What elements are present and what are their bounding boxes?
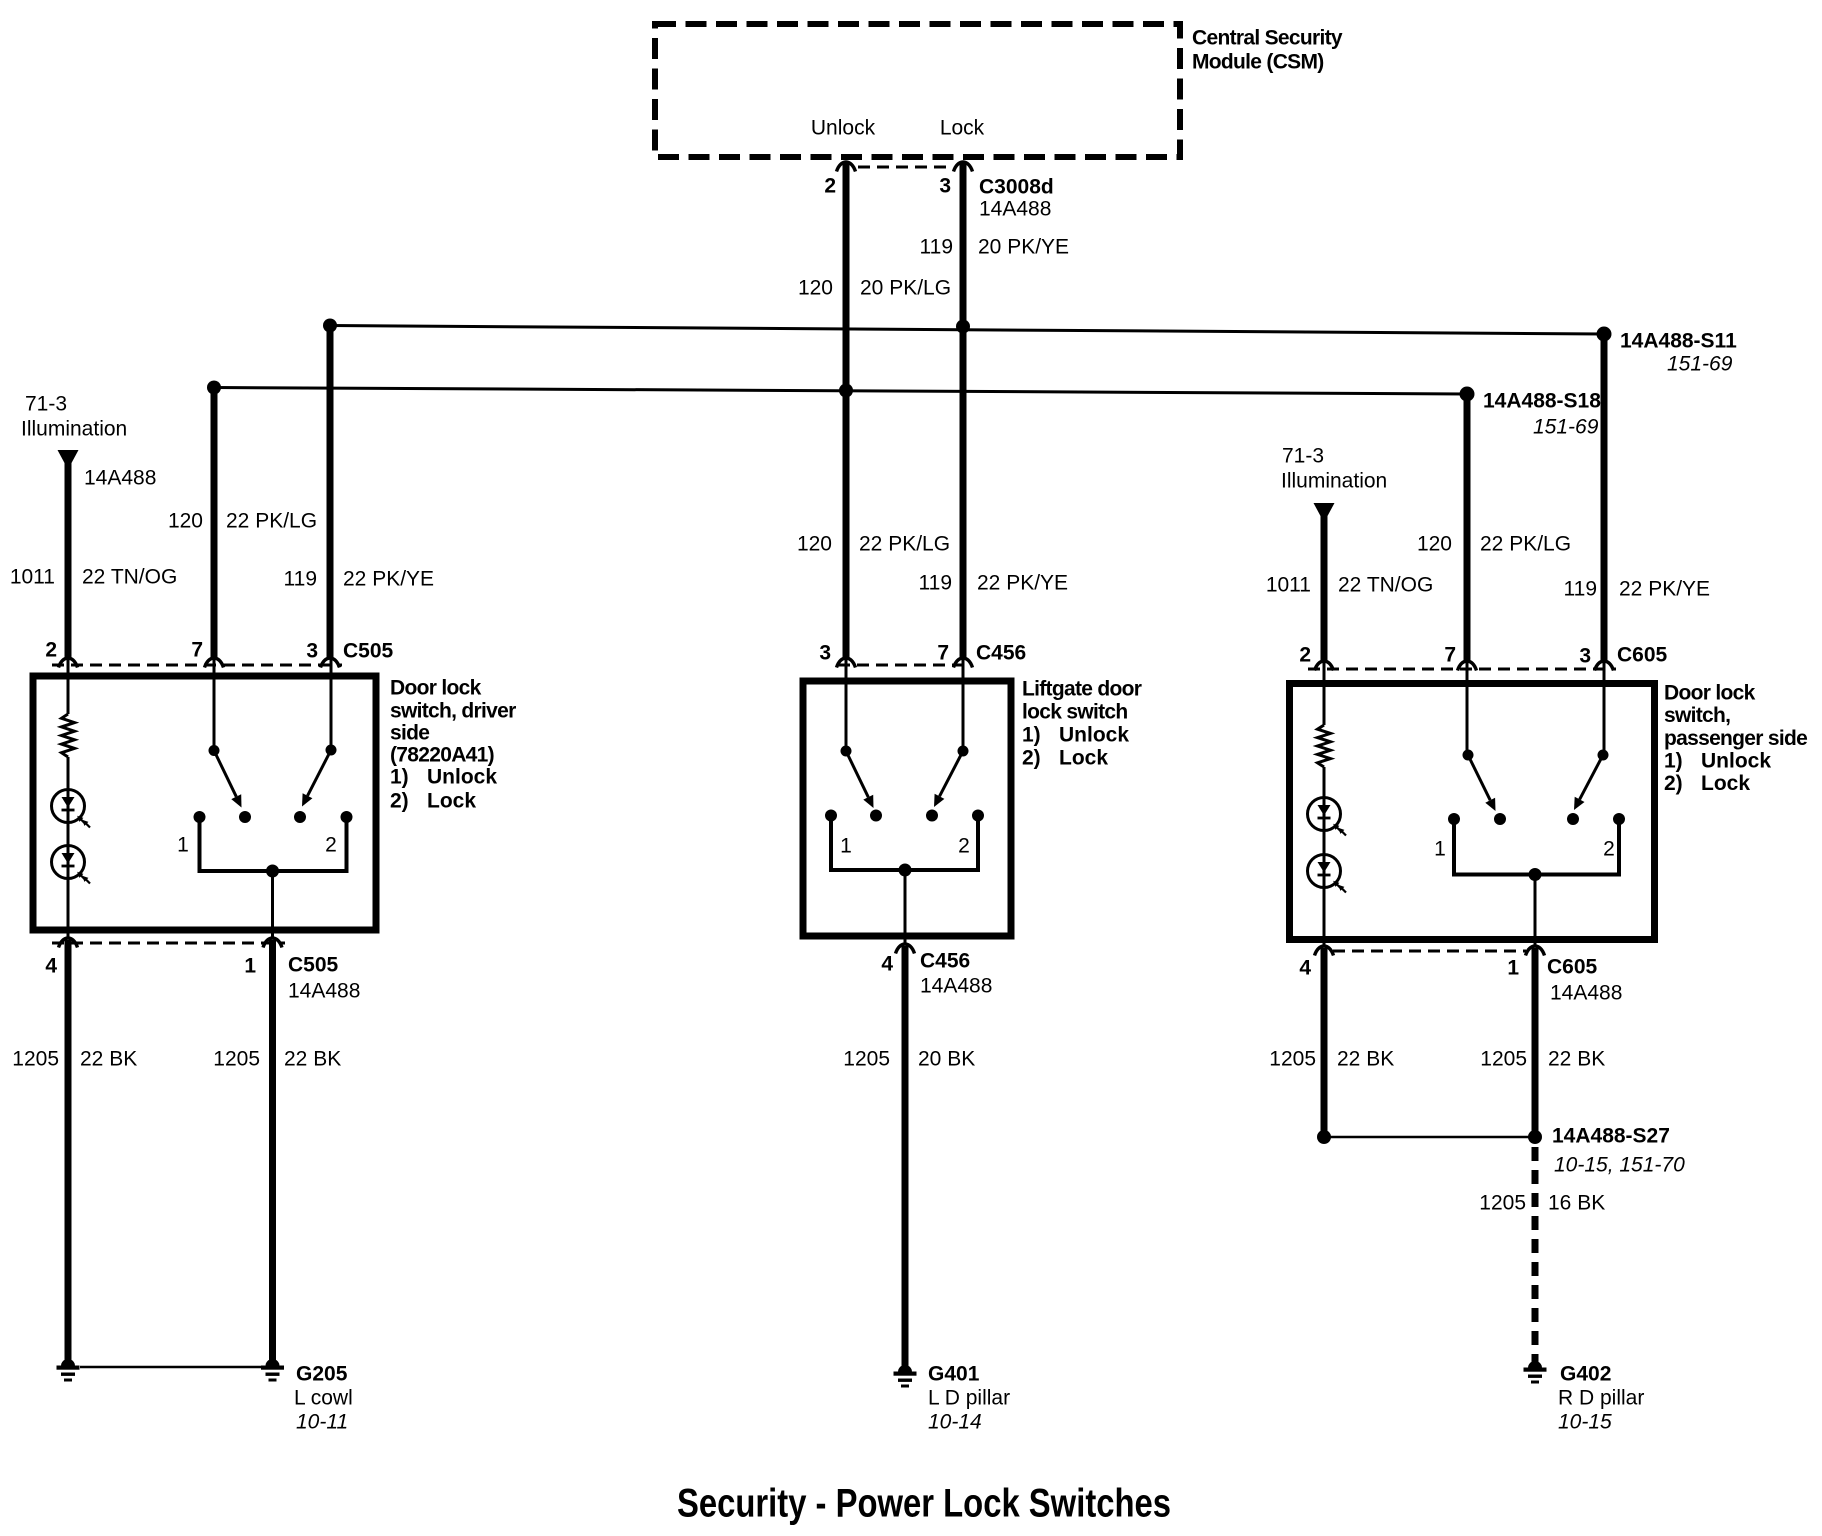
svg-text:20 PK/LG: 20 PK/LG [860, 277, 951, 300]
ground G402 symbol [1524, 1354, 1547, 1384]
svg-text:1: 1 [1434, 838, 1446, 861]
wire 1205 BK left ground leg [65, 940, 72, 1358]
driver switch description [390, 677, 516, 813]
liftgate common bus [831, 816, 978, 871]
liftgate contact lock dot [926, 810, 938, 822]
svg-text:22 BK: 22 BK [1548, 1048, 1605, 1071]
liftgate switch pole unlock dot [841, 746, 852, 757]
svg-text:(78220A41): (78220A41) [390, 744, 494, 767]
svg-text:L cowl: L cowl [294, 1387, 353, 1410]
passenger switch lock contact arm [1574, 755, 1603, 810]
passenger common tap wire [1534, 875, 1537, 947]
svg-text:20 PK/YE: 20 PK/YE [978, 236, 1069, 259]
driver contact unlock dot [239, 811, 251, 823]
passenger contact 1 dot [1448, 813, 1460, 825]
connector C456 pin 3 terminal [837, 658, 856, 668]
connector C456 pin 4 terminal [896, 944, 915, 954]
svg-text:4: 4 [45, 955, 57, 978]
pin 4 label C605 [1299, 957, 1311, 980]
wire 120 PK/LG from CSM pin 2 to liftgate switch pin 3 [843, 163, 850, 659]
passenger illumination wire in box [1323, 662, 1326, 725]
svg-text:4: 4 [1299, 957, 1311, 980]
svg-text:3: 3 [1579, 645, 1591, 668]
driver switch unlock contact arm [214, 751, 242, 808]
svg-text:Lock: Lock [1059, 747, 1108, 770]
driver contact 1 label [177, 834, 189, 857]
svg-text:7: 7 [191, 639, 203, 662]
connector C505 pin 3 terminal [321, 658, 340, 668]
svg-text:Lock: Lock [940, 117, 985, 140]
left illumination feed label [21, 393, 127, 441]
wire PK/YE bus to splice S11 [330, 326, 1604, 335]
svg-text:1011: 1011 [1266, 574, 1311, 597]
connector C605 bottom dashed boundary [1333, 950, 1526, 953]
svg-text:lock switch: lock switch [1022, 701, 1128, 724]
driver contact 2 dot [341, 811, 353, 823]
wire LED2 to pin 4 [67, 878, 70, 938]
driver contact lock dot [294, 811, 306, 823]
connector C3008d pin 2 terminal [837, 162, 856, 172]
driver contact 1 dot [194, 811, 206, 823]
wire 119 PK/YE to passenger switch pin 3 [1601, 334, 1608, 662]
wire PK/LG bus to splice S18 [214, 388, 1467, 395]
svg-text:1): 1) [1022, 724, 1041, 747]
wire label 120 22 PK/LG right [1417, 533, 1571, 556]
liftgate common junction dot [899, 864, 912, 877]
liftgate contact unlock dot [870, 810, 882, 822]
connector C505 label bottom [288, 954, 360, 1003]
pin 3 label C605 [1579, 645, 1591, 668]
liftgate switch unlock contact arm [846, 751, 874, 808]
passenger switch pole unlock wire [1466, 662, 1469, 755]
wire resistor to LED1 right [1323, 767, 1326, 798]
wire 119 PK/YE from CSM pin 3 to liftgate switch pin 7 [960, 163, 967, 659]
svg-text:7: 7 [1444, 644, 1456, 667]
svg-text:C456: C456 [976, 642, 1026, 665]
svg-text:2: 2 [958, 835, 970, 858]
pin 2 label C605 [1299, 644, 1311, 667]
wire 1205 16 BK dashed to G402 [1532, 1147, 1539, 1358]
connector C605 pin 7 terminal [1458, 661, 1477, 671]
svg-text:G402: G402 [1560, 1363, 1611, 1386]
diagram title [677, 1481, 1171, 1525]
driver contact 2 label [325, 834, 337, 857]
connector C505 top dashed boundary [52, 664, 342, 667]
svg-text:22 PK/YE: 22 PK/YE [343, 568, 434, 591]
svg-text:2: 2 [1299, 644, 1311, 667]
ground G401 symbol [894, 1358, 917, 1388]
ground G402 label [1558, 1363, 1644, 1434]
svg-text:14A488: 14A488 [288, 980, 360, 1003]
driver resistor [62, 714, 75, 757]
connector C456 label bottom [920, 950, 992, 998]
svg-text:2: 2 [325, 834, 337, 857]
driver switch pole unlock dot [209, 745, 220, 756]
svg-text:10-15, 151-70: 10-15, 151-70 [1554, 1154, 1685, 1177]
svg-text:119: 119 [1564, 578, 1597, 601]
svg-text:C605: C605 [1617, 644, 1668, 667]
pin 3 label C505 [306, 640, 318, 663]
svg-text:1205: 1205 [1479, 1192, 1526, 1215]
splice dot left PK/LG [207, 381, 221, 395]
wire label 1205 22 BK a [12, 1048, 137, 1071]
ground tie line G205 [80, 1366, 262, 1369]
svg-text:119: 119 [919, 572, 952, 595]
liftgate door lock switch box [803, 681, 1011, 936]
wire 1205 BK passenger pin4 leg [1321, 948, 1328, 1137]
right illumination source arrow [1314, 503, 1335, 516]
pin 7 label C456 [937, 642, 949, 665]
pin 7 label C605 [1444, 644, 1456, 667]
pin 2 label [824, 175, 836, 198]
passenger contact 2 dot [1613, 813, 1625, 825]
svg-text:22 PK/LG: 22 PK/LG [1480, 533, 1571, 556]
svg-text:151-69: 151-69 [1667, 353, 1733, 376]
svg-text:C3008d: C3008d [979, 176, 1054, 199]
svg-text:G205: G205 [296, 1363, 348, 1386]
wire label 1205 22 BK d [1480, 1048, 1605, 1071]
connector C3008d pin 3 terminal [954, 162, 973, 172]
pin 3 label C456 [819, 642, 831, 665]
passenger LED lamp 1 [1308, 798, 1347, 836]
passenger switch pole lock wire [1603, 662, 1606, 755]
svg-text:C505: C505 [343, 640, 394, 663]
wire label 119 22 PK/YE left [284, 568, 435, 591]
svg-text:16 BK: 16 BK [1548, 1192, 1605, 1215]
passenger common junction dot [1529, 868, 1542, 881]
svg-text:2): 2) [390, 790, 409, 813]
splice 14A488-S11 [1597, 327, 1612, 342]
driver switch lock contact arm [302, 750, 331, 807]
driver switch pole lock dot [326, 745, 337, 756]
Central Security Module (CSM) box [655, 24, 1180, 157]
connector C3008d label [979, 176, 1054, 221]
splice S11 label [1620, 330, 1737, 376]
svg-text:C505: C505 [288, 954, 339, 977]
svg-text:4: 4 [881, 953, 893, 976]
driver common tap wire [271, 871, 274, 938]
svg-text:1): 1) [1664, 750, 1683, 773]
passenger switch description [1664, 682, 1807, 796]
wire LED1 to LED2 right [1323, 830, 1326, 855]
svg-text:C456: C456 [920, 950, 970, 973]
svg-text:14A488-S11: 14A488-S11 [1620, 330, 1737, 353]
svg-text:14A488: 14A488 [84, 467, 156, 490]
wire label 1205 22 BK c [1269, 1048, 1394, 1071]
passenger switch pole unlock dot [1463, 750, 1474, 761]
splice S27 tie line [1324, 1136, 1535, 1139]
svg-text:14A488: 14A488 [1550, 982, 1622, 1005]
svg-text:Lock: Lock [427, 790, 476, 813]
connector C456 label top [976, 642, 1026, 665]
svg-text:7: 7 [937, 642, 949, 665]
splice 14A488-S18 [1460, 387, 1475, 402]
svg-text:1205: 1205 [1480, 1048, 1527, 1071]
svg-text:Central Security: Central Security [1192, 27, 1343, 50]
svg-text:Illumination: Illumination [1281, 470, 1387, 493]
CSM Unlock label [811, 117, 876, 140]
connector C505 bottom dashed boundary [52, 942, 285, 945]
svg-text:1205: 1205 [12, 1048, 59, 1071]
pin 3 label [939, 175, 951, 198]
connector C605 pin 4 terminal [1315, 946, 1334, 956]
left illumination source arrow [58, 450, 79, 463]
svg-text:Module (CSM): Module (CSM) [1192, 51, 1324, 74]
svg-text:Unlock: Unlock [1059, 724, 1129, 747]
ground G205 left symbol [57, 1352, 80, 1382]
wire label 1011 22 TN/OG right [1266, 574, 1433, 597]
svg-text:1: 1 [840, 835, 852, 858]
left 14A488 harness label [84, 467, 156, 490]
svg-text:10-11: 10-11 [296, 1411, 348, 1434]
connector C605 label bottom [1547, 956, 1622, 1005]
svg-text:switch,: switch, [1664, 704, 1730, 727]
svg-text:22 PK/YE: 22 PK/YE [977, 572, 1068, 595]
svg-text:1: 1 [177, 834, 189, 857]
svg-text:14A488-S18: 14A488-S18 [1483, 390, 1601, 413]
wire 1011 TN/OG to passenger switch pin 2 [1321, 511, 1328, 662]
svg-text:120: 120 [168, 510, 203, 533]
svg-text:3: 3 [939, 175, 951, 198]
liftgate contact 1 dot [825, 810, 837, 822]
liftgate common tap wire [904, 870, 907, 944]
svg-text:120: 120 [798, 277, 833, 300]
pin 4 label C505 [45, 955, 57, 978]
passenger LED lamp 2 [1308, 855, 1347, 893]
connector C505 pin 1 terminal [263, 938, 282, 948]
svg-text:151-69: 151-69 [1533, 416, 1599, 439]
svg-text:2): 2) [1022, 747, 1041, 770]
svg-text:22 BK: 22 BK [80, 1048, 137, 1071]
svg-text:22 PK/YE: 22 PK/YE [1619, 578, 1710, 601]
svg-text:120: 120 [797, 533, 832, 556]
driver switch pole unlock wire [213, 659, 216, 750]
pin 7 label C505 [191, 639, 203, 662]
svg-text:Illumination: Illumination [21, 418, 127, 441]
driver LED lamp 1 [52, 790, 91, 828]
connector C505 pin 7 terminal [205, 658, 224, 668]
svg-text:3: 3 [819, 642, 831, 665]
pin 1 label C605 [1507, 957, 1519, 980]
wire label 119 20 PK/YE [920, 236, 1070, 259]
svg-text:1205: 1205 [843, 1048, 890, 1071]
passenger contact 1 label [1434, 838, 1446, 861]
wire label 1011 22 TN/OG left [10, 566, 177, 589]
svg-text:1011: 1011 [10, 566, 55, 589]
pin 2 label C505 [45, 639, 57, 662]
liftgate switch pole unlock wire [845, 659, 848, 751]
connector C605 label top [1617, 644, 1668, 667]
passenger common bus [1454, 819, 1619, 875]
CSM Lock label [940, 117, 985, 140]
connector C605 top dashed boundary [1308, 668, 1616, 671]
svg-text:2): 2) [1664, 772, 1683, 795]
svg-text:1205: 1205 [213, 1048, 260, 1071]
wire LED2 to pin 4 right [1323, 887, 1326, 946]
passenger switch pole lock dot [1598, 750, 1609, 761]
wire 120 PK/LG to passenger switch pin 7 [1464, 394, 1471, 662]
door lock switch passenger side box [1290, 684, 1655, 940]
svg-text:side: side [390, 722, 429, 745]
svg-text:Door lock: Door lock [390, 677, 482, 700]
svg-text:22 PK/LG: 22 PK/LG [859, 533, 950, 556]
svg-text:passenger side: passenger side [1664, 727, 1807, 750]
svg-text:Door lock: Door lock [1664, 682, 1756, 705]
liftgate switch lock contact arm [934, 751, 963, 807]
passenger switch unlock contact arm [1468, 755, 1496, 811]
driver common junction dot [266, 865, 279, 878]
connector C505 pin 2 terminal [59, 658, 78, 668]
svg-text:71-3: 71-3 [1282, 445, 1324, 468]
wire label 1205 22 BK b [213, 1048, 341, 1071]
connector C605 pin 1 terminal [1526, 946, 1545, 956]
svg-text:71-3: 71-3 [25, 393, 67, 416]
svg-text:10-15: 10-15 [1558, 1411, 1612, 1434]
svg-text:1: 1 [1507, 957, 1519, 980]
passenger contact 2 label [1603, 838, 1615, 861]
wire label 120 20 PK/LG [798, 277, 951, 300]
wire 119 PK/YE to driver switch pin 3 [327, 326, 334, 659]
splice S27 label [1552, 1125, 1685, 1177]
wire 1011 TN/OG to driver switch pin 2 [65, 458, 72, 659]
liftgate switch pole lock wire [962, 659, 965, 751]
svg-text:22 TN/OG: 22 TN/OG [1338, 574, 1433, 597]
svg-text:G401: G401 [928, 1363, 980, 1386]
svg-text:switch, driver: switch, driver [390, 700, 516, 723]
junction PK/YE at CSM wire [956, 320, 970, 334]
svg-text:C605: C605 [1547, 956, 1598, 979]
connector C505 pin 4 terminal [59, 938, 78, 948]
driver LED lamp 2 [52, 846, 91, 884]
connector C605 pin 3 terminal [1595, 661, 1614, 671]
driver illumination wire in box [67, 659, 70, 714]
svg-text:Security - Power Lock Switches: Security - Power Lock Switches [677, 1481, 1171, 1525]
svg-text:22 PK/LG: 22 PK/LG [226, 510, 317, 533]
splice S27 left dot [1317, 1130, 1331, 1144]
ground G205 label [294, 1363, 353, 1434]
svg-text:20 BK: 20 BK [918, 1048, 975, 1071]
junction PK/LG at CSM wire [839, 384, 853, 398]
svg-text:Unlock: Unlock [1701, 750, 1771, 773]
connector C456 pin 7 terminal [954, 658, 973, 668]
ground G205 right symbol [261, 1352, 284, 1382]
svg-text:1205: 1205 [1269, 1048, 1316, 1071]
wire label 1205 16 BK [1479, 1192, 1605, 1215]
right illumination feed label [1281, 445, 1387, 493]
connector C605 pin 2 terminal [1315, 661, 1334, 671]
svg-text:119: 119 [284, 568, 317, 591]
svg-text:119: 119 [920, 236, 953, 259]
svg-text:22 BK: 22 BK [1337, 1048, 1394, 1071]
splice 14A488-S27 [1528, 1130, 1542, 1144]
svg-text:10-14: 10-14 [928, 1411, 982, 1434]
svg-text:2: 2 [1603, 838, 1615, 861]
wire resistor to LED1 [67, 757, 70, 790]
svg-text:R D pillar: R D pillar [1558, 1387, 1644, 1410]
wire 1205 BK passenger pin1 leg [1532, 948, 1539, 1137]
svg-text:3: 3 [306, 640, 318, 663]
liftgate contact 2 label [958, 835, 970, 858]
connector C456 top dashed boundary [838, 664, 968, 667]
svg-text:2: 2 [45, 639, 57, 662]
wire 120 PK/LG to driver switch pin 7 [211, 388, 218, 659]
liftgate contact 1 label [840, 835, 852, 858]
pin 4 label C456 [881, 953, 893, 976]
connector C505 label top [343, 640, 394, 663]
driver switch pole lock wire [330, 659, 333, 750]
wire label 119 22 PK/YE middle [919, 572, 1069, 595]
liftgate contact 2 dot [972, 810, 984, 822]
liftgate switch description [1022, 678, 1142, 770]
ground G401 label [928, 1363, 1010, 1434]
svg-text:14A488-S27: 14A488-S27 [1552, 1125, 1670, 1148]
svg-text:2: 2 [824, 175, 836, 198]
svg-text:Liftgate door: Liftgate door [1022, 678, 1142, 701]
wire 1205 BK liftgate ground leg [902, 946, 909, 1362]
svg-text:Lock: Lock [1701, 772, 1750, 795]
door lock switch driver side box [33, 676, 376, 930]
wire label 120 22 PK/LG left [168, 510, 317, 533]
wire LED1 to LED2 [67, 822, 70, 846]
wire label 119 22 PK/YE right [1564, 578, 1711, 601]
wire label 1205 20 BK [843, 1048, 975, 1071]
svg-text:120: 120 [1417, 533, 1452, 556]
passenger resistor [1318, 725, 1331, 767]
connector C3008d dashed boundary [858, 166, 951, 169]
pin 1 label C505 [244, 955, 256, 978]
wire label 120 22 PK/LG middle [797, 533, 950, 556]
svg-text:Unlock: Unlock [811, 117, 876, 140]
wire 1205 BK right ground leg [269, 940, 276, 1358]
svg-text:1): 1) [390, 766, 409, 789]
svg-text:Unlock: Unlock [427, 766, 497, 789]
svg-text:22 BK: 22 BK [284, 1048, 341, 1071]
svg-text:14A488: 14A488 [979, 198, 1051, 221]
passenger contact lock dot [1567, 813, 1579, 825]
svg-text:L D pillar: L D pillar [928, 1387, 1010, 1410]
driver common bus [200, 817, 347, 871]
liftgate switch pole lock dot [958, 746, 969, 757]
svg-text:14A488: 14A488 [920, 975, 992, 998]
passenger contact unlock dot [1494, 813, 1506, 825]
svg-text:1: 1 [244, 955, 256, 978]
splice dot left PK/YE [323, 319, 337, 333]
svg-text:22 TN/OG: 22 TN/OG [82, 566, 177, 589]
CSM name label [1192, 27, 1343, 74]
splice S18 label [1483, 390, 1601, 439]
